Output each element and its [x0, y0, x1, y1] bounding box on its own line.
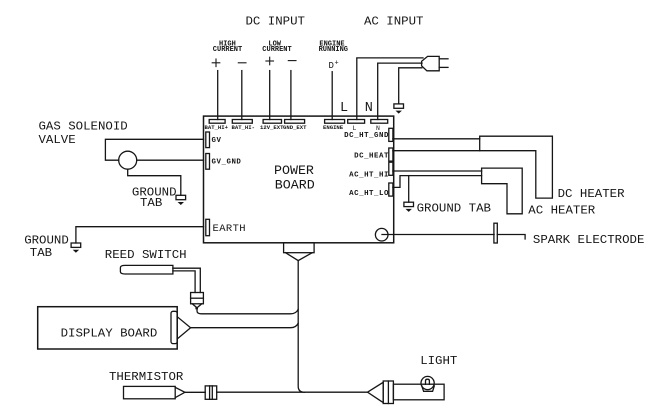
wire thermistor to light [217, 391, 368, 393]
label D+ [329, 60, 339, 72]
svg-text:POWER: POWER [274, 163, 314, 178]
wire high current + [217, 71, 219, 120]
wire engine running D+ [331, 72, 333, 120]
svg-text:AC INPUT: AC INPUT [364, 15, 424, 29]
light connector wedge [368, 382, 384, 402]
svg-text:D: D [329, 61, 334, 71]
reed switch connector [191, 293, 204, 310]
svg-text:DC INPUT: DC INPUT [246, 15, 306, 29]
svg-text:THERMISTOR: THERMISTOR [109, 370, 184, 384]
label LOW CURRENT [262, 40, 291, 54]
wire mains L [357, 58, 423, 120]
pin tab AC_HT_HI (right 3) [389, 162, 393, 175]
label POWER BOARD [274, 163, 315, 193]
svg-text:VALVE: VALVE [39, 133, 76, 147]
ground symbol right ground tab [404, 202, 414, 212]
pin tab AC_HT_LO (right 4) [389, 183, 393, 196]
wire mains N [378, 63, 422, 119]
light bulb [421, 376, 434, 391]
gas solenoid valve coil [119, 151, 137, 169]
wire mains earth [399, 68, 422, 104]
wire DC_HT_GND to DC heater [393, 138, 480, 140]
svg-text:EARTH: EARTH [213, 223, 247, 235]
ground symbol AC plug [394, 104, 404, 114]
AC plug [422, 56, 448, 70]
label GROUND TAB (left) [24, 233, 69, 259]
svg-text:DISPLAY BOARD: DISPLAY BOARD [61, 326, 158, 340]
pin tab 12V_EXT (top 3) [263, 120, 281, 124]
pin tab L (top 6) [348, 120, 365, 124]
svg-text:CURRENT: CURRENT [213, 46, 242, 54]
pin tab ENGINE (top 5) [325, 120, 345, 124]
minus sign low current - [288, 60, 296, 62]
pin tab BAT_HI+ (top 1) [209, 120, 225, 124]
display board connector [171, 311, 177, 343]
svg-text:BAT_HI+: BAT_HI+ [205, 124, 229, 131]
svg-text:REED SWITCH: REED SWITCH [105, 248, 187, 262]
display board outline [38, 307, 178, 349]
wire thermistor to connector [185, 391, 205, 393]
svg-text:DC_HEAT: DC_HEAT [354, 152, 389, 160]
wire EARTH to left ground tab [76, 227, 204, 243]
svg-text:GAS SOLENOID: GAS SOLENOID [39, 119, 128, 133]
wire AC_HT_HI to AC heater [393, 170, 482, 172]
DC heater element [480, 136, 553, 198]
pin tab BAT_HI- (top 2) [232, 120, 252, 124]
wire reed switch branch to trunk [197, 309, 298, 314]
harness connector below board [284, 243, 315, 261]
svg-text:LIGHT: LIGHT [420, 354, 457, 368]
svg-text:AC HEATER: AC HEATER [528, 204, 595, 218]
AC heater element [482, 168, 523, 214]
spark output circle [375, 228, 388, 241]
svg-text:DC HEATER: DC HEATER [558, 187, 625, 201]
wire reed switch to connector (twin lead) [173, 268, 200, 292]
svg-text:TAB: TAB [30, 246, 52, 260]
thermistor body [124, 386, 176, 398]
light connector [383, 381, 393, 404]
svg-text:TAB: TAB [140, 196, 162, 210]
pin tab GND_EXT (top 4) [285, 120, 305, 124]
reed switch body [120, 265, 172, 274]
svg-text:N: N [365, 101, 373, 116]
harness trunk wire [298, 261, 304, 393]
wire high current - [241, 71, 243, 120]
thermistor tip [175, 387, 185, 397]
display board connector wedge [177, 317, 190, 339]
pin tab GV_GND (left 2) [206, 154, 210, 170]
wire spark electrode right [497, 235, 525, 240]
svg-text:SPARK ELECTRODE: SPARK ELECTRODE [533, 233, 645, 247]
ground symbol solenoid ground tab [176, 195, 186, 205]
ground symbol left ground tab [71, 243, 81, 253]
thermistor connector [205, 386, 217, 399]
wire branch to right ground tab [408, 176, 410, 203]
svg-text:L: L [353, 125, 357, 132]
power board U1 outline [204, 116, 394, 243]
label HIGH CURRENT [213, 40, 242, 54]
svg-text:L: L [340, 101, 348, 116]
svg-text:BOARD: BOARD [275, 178, 315, 193]
wire solenoid to ground tab [128, 169, 181, 195]
svg-text:GV: GV [212, 137, 222, 145]
svg-text:DC_HT_GND: DC_HT_GND [344, 132, 389, 140]
wire DC_HEAT to DC heater [393, 150, 480, 152]
pin tab DC_HEAT (right 2) [389, 148, 393, 161]
svg-text:GV_GND: GV_GND [212, 159, 242, 167]
plus sign high current + [212, 59, 220, 67]
svg-text:AC_HT_HI: AC_HT_HI [349, 171, 389, 179]
wire GV to solenoid [105, 139, 203, 160]
svg-text:+: + [335, 60, 339, 68]
label GROUND TAB (solenoid) [132, 185, 177, 210]
svg-text:GND_EXT: GND_EXT [283, 124, 307, 131]
svg-text:BAT_HI-: BAT_HI- [232, 124, 256, 131]
wire low current + [269, 71, 271, 120]
spark electrode bar [494, 223, 497, 243]
pin tab GV (left 1) [206, 132, 210, 148]
plus sign low current + [266, 57, 274, 65]
pin tab DC_HT_GND (right 1) [389, 128, 393, 141]
wire display board branch to trunk [191, 323, 299, 328]
svg-text:12V_EXT: 12V_EXT [260, 124, 284, 131]
svg-text:RUNNING: RUNNING [319, 46, 348, 54]
label GAS SOLENOID VALVE [39, 119, 128, 147]
svg-text:GROUND TAB: GROUND TAB [417, 201, 491, 215]
svg-text:ENGINE: ENGINE [323, 124, 344, 131]
pin tab EARTH (left 3) [206, 219, 210, 235]
light body [393, 384, 444, 400]
wire low current - [290, 71, 292, 120]
minus sign high current - [238, 62, 246, 64]
svg-text:AC_HT_LO: AC_HT_LO [349, 190, 389, 198]
svg-text:N: N [376, 125, 380, 132]
label ENGINE RUNNING [319, 40, 348, 54]
wire spark electrode [382, 234, 494, 236]
wire solenoid to GV_GND [137, 159, 204, 161]
svg-text:CURRENT: CURRENT [262, 46, 291, 54]
wire AC_HT_LO to AC heater [393, 176, 482, 188]
pin tab N (top 7) [371, 120, 388, 124]
